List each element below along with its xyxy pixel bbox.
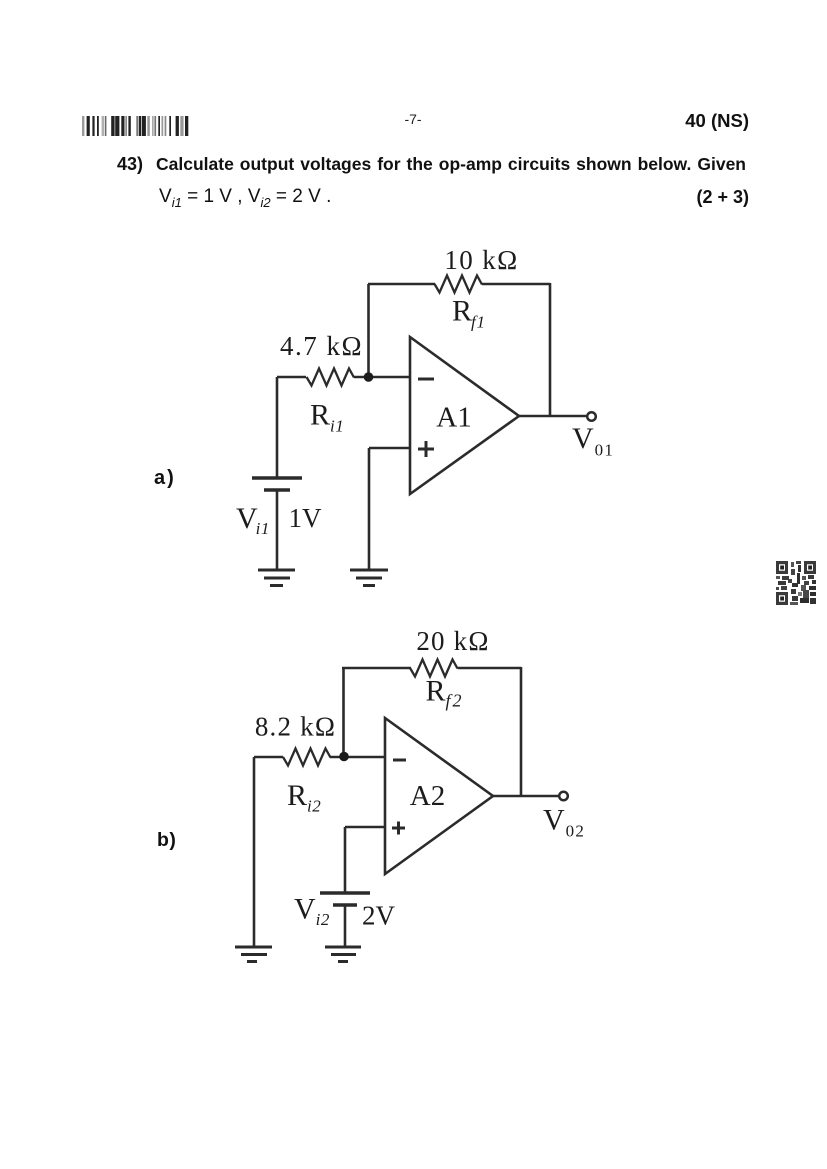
wire input right to op-amp b — [330, 756, 385, 759]
terminal circle b — [559, 792, 568, 801]
plus sign A1 — [418, 441, 434, 457]
svg-text:1V: 1V — [289, 503, 323, 533]
marks (2 + 3) — [630, 187, 749, 208]
wire plus input vertical — [368, 448, 371, 569]
terminal circle a — [587, 412, 596, 421]
plus sign A2 — [392, 822, 405, 835]
wire input right to op-amp — [354, 376, 410, 379]
node junction dot b — [339, 752, 349, 762]
svg-text:Ri1: Ri1 — [310, 399, 344, 436]
node junction dot a — [364, 372, 374, 382]
wire output b — [493, 795, 559, 798]
wire source vertical bottom — [276, 491, 279, 569]
svg-text:4.7 kΩ: 4.7 kΩ — [280, 331, 363, 361]
svg-text:10 kΩ: 10 kΩ — [444, 245, 518, 275]
ground under battery a — [258, 570, 295, 586]
op-amp A2 triangle — [385, 718, 493, 874]
battery Vi1 short plate — [264, 488, 290, 491]
svg-text:8.2 kΩ: 8.2 kΩ — [255, 712, 336, 742]
wire feedback right vertical — [549, 283, 552, 416]
wire plus input vertical b — [344, 827, 347, 892]
wire input left horizontal b — [254, 756, 283, 759]
wire source vertical top — [276, 377, 279, 477]
wire feedback top right b — [458, 667, 522, 670]
resistor Ri2 zigzag — [283, 749, 331, 766]
question number 43) — [117, 154, 143, 175]
QR code right edge — [776, 561, 816, 605]
svg-text:V01: V01 — [572, 422, 614, 460]
wire input left horizontal — [277, 376, 306, 379]
page number -7- — [380, 111, 446, 127]
battery Vi2 long plate — [320, 891, 370, 894]
wire feedback left vertical — [367, 284, 370, 373]
ground plus input a — [350, 570, 388, 586]
minus sign A2 — [393, 759, 406, 762]
wire plus input horizontal — [369, 447, 410, 450]
resistor Rf2 zigzag — [410, 660, 458, 677]
wire output a — [519, 415, 586, 418]
wire feedback top left b — [342, 667, 411, 670]
question text line 2 — [159, 186, 331, 210]
wire feedback top left — [368, 283, 435, 286]
wire feedback right vertical b — [520, 667, 523, 796]
svg-text:Ri2: Ri2 — [287, 779, 321, 816]
battery Vi1 long plate — [252, 476, 302, 479]
barcode top-left — [82, 116, 192, 136]
svg-text:2V: 2V — [362, 901, 396, 931]
svg-text:V02: V02 — [543, 804, 585, 841]
wire input ground vertical b — [253, 757, 256, 946]
label a) — [154, 467, 176, 490]
ground input b — [235, 947, 272, 962]
wire plus input horizontal b — [345, 826, 385, 829]
header 40 (NS) — [630, 110, 749, 132]
ground under battery b — [325, 947, 361, 962]
svg-text:A1: A1 — [436, 402, 471, 434]
resistor Rf1 zigzag — [435, 276, 483, 293]
battery Vi2 short plate — [333, 903, 357, 906]
resistor Ri1 zigzag — [307, 369, 355, 386]
svg-text:Rf2: Rf2 — [426, 675, 464, 711]
wire feedback left vertical b — [342, 668, 345, 752]
label b) — [157, 829, 176, 852]
wire feedback top right — [482, 283, 550, 286]
wire battery to ground b — [344, 906, 347, 946]
op-amp A1 triangle — [410, 337, 519, 494]
svg-text:20 kΩ: 20 kΩ — [416, 626, 489, 656]
svg-text:Vi1: Vi1 — [236, 502, 270, 538]
minus sign A1 — [418, 378, 434, 381]
svg-text:Rf1: Rf1 — [452, 295, 486, 332]
svg-text:A2: A2 — [410, 780, 445, 812]
svg-text:Vi2: Vi2 — [294, 893, 330, 930]
question text line 1 — [156, 154, 746, 175]
